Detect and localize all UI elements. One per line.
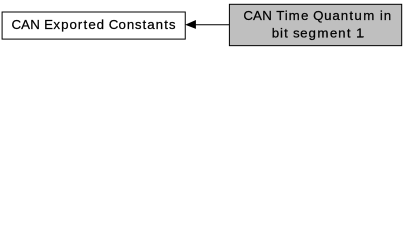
svg-text:CAN Exported Constants: CAN Exported Constants bbox=[12, 17, 176, 32]
svg-text:CAN Time Quantum in: CAN Time Quantum in bbox=[243, 8, 391, 23]
svg-text:bit segment 1: bit segment 1 bbox=[272, 25, 364, 40]
